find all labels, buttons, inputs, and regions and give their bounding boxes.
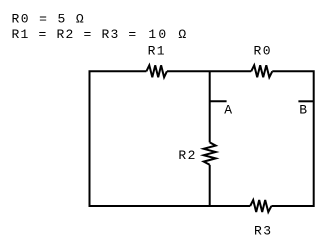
resistor R0 <box>251 65 272 77</box>
svg-text:R1: R1 <box>148 44 166 59</box>
resistor R1 <box>146 65 167 77</box>
svg-text:A: A <box>224 103 233 118</box>
node A terminal stub <box>210 100 227 102</box>
resistor R2 <box>204 142 216 164</box>
svg-text:R1 = R2 = R3: R1 = R2 = R3 <box>12 27 120 42</box>
svg-text:R0: R0 <box>254 44 272 59</box>
wire top-right segment + right side + bottom-right segment <box>271 71 313 206</box>
svg-text:= 10 Ω: = 10 Ω <box>128 27 188 42</box>
wire top-left segment + left side + bottom-left segment <box>90 71 251 206</box>
svg-text:R3: R3 <box>254 224 272 239</box>
wire top middle between R1 and R0 <box>167 70 251 72</box>
svg-text:B: B <box>299 102 308 117</box>
resistor R3 <box>250 200 271 212</box>
wire middle vertical above R2 <box>209 71 211 142</box>
svg-text:R2: R2 <box>178 148 196 163</box>
node B terminal stub <box>298 100 313 102</box>
wire middle vertical below R2 <box>209 165 211 206</box>
svg-text:R0 = 5 Ω: R0 = 5 Ω <box>12 12 86 27</box>
